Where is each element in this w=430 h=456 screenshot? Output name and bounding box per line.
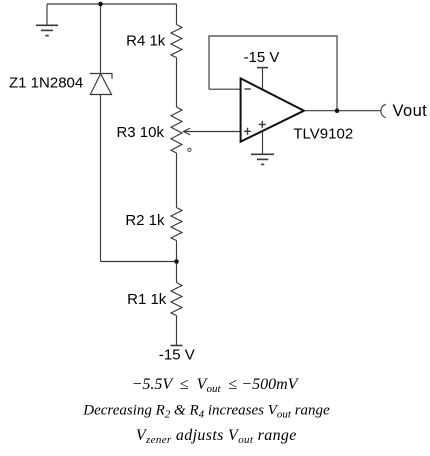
wire zener branch down — [100, 4, 102, 73]
node junction bottom — [174, 259, 179, 264]
power -15V bottom bar — [171, 345, 183, 347]
resistor R4 — [171, 4, 182, 58]
port Vout terminal — [381, 104, 386, 117]
wire wiper to op-amp + input — [183, 131, 240, 133]
resistor R2 — [171, 208, 182, 241]
wire top rail — [47, 3, 177, 5]
svg-text:Vout: Vout — [393, 102, 428, 120]
op-amp supply ground stem — [262, 131, 264, 154]
svg-text:R3 10k: R3 10k — [116, 124, 164, 141]
op-amp V+ supply marker — [259, 121, 266, 128]
wire inverting input stub — [209, 88, 241, 90]
svg-text:TLV9102: TLV9102 — [293, 126, 353, 143]
svg-text:Decreasing R2 & R4 increases V: Decreasing R2 & R4 increases Vout range — [82, 402, 330, 420]
svg-text:Vzener adjusts Vout range: Vzener adjusts Vout range — [136, 427, 297, 446]
wire feedback loop — [209, 36, 337, 111]
svg-text:R2 1k: R2 1k — [125, 212, 165, 229]
wire zener to bottom node — [100, 95, 102, 262]
wire output — [304, 110, 381, 112]
ground — [36, 4, 58, 36]
svg-text:R1 1k: R1 1k — [127, 291, 167, 308]
wire R3 to R2 — [176, 153, 178, 208]
node junction top — [98, 2, 103, 7]
ground op-amp supply — [251, 154, 274, 164]
svg-text:R4 1k: R4 1k — [126, 33, 166, 50]
svg-text:Z1 1N2804: Z1 1N2804 — [9, 75, 83, 92]
op-amp minus input marker — [244, 88, 250, 90]
svg-text:-15 V: -15 V — [244, 49, 280, 66]
node junction output — [335, 108, 340, 113]
resistor R1 — [171, 262, 182, 346]
svg-text:-15 V: -15 V — [159, 347, 195, 364]
zener Z1 — [90, 74, 112, 95]
op-amp plus input marker — [244, 128, 251, 135]
svg-text:−5.5V ≤ Vout ≤ −500mV: −5.5V ≤ Vout ≤ −500mV — [132, 376, 300, 395]
wire R4 to R3 — [176, 58, 178, 108]
op-amp U1 TLV9102 — [241, 78, 304, 141]
wire bottom horizontal — [101, 261, 177, 263]
wire R2 to node — [176, 241, 178, 262]
potentiometer R3 — [171, 107, 191, 153]
power -15V top bar — [257, 68, 268, 90]
